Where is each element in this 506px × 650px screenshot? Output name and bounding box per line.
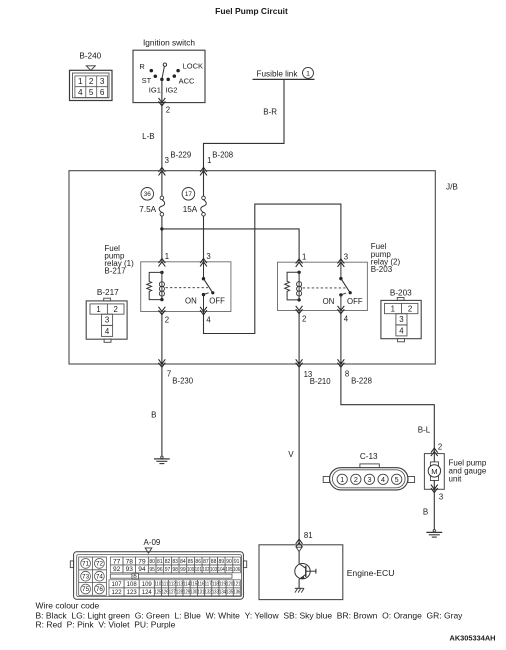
relay K2 pin 2 crossing <box>296 306 303 314</box>
connector A-09 left tab <box>70 561 73 568</box>
svg-text:112: 112 <box>169 582 176 588</box>
svg-text:2: 2 <box>302 315 306 324</box>
svg-text:89: 89 <box>218 559 224 565</box>
svg-text:M: M <box>431 467 437 476</box>
fusible link bus bar <box>253 78 315 80</box>
motor M1 terminals <box>430 462 438 466</box>
svg-text:83: 83 <box>172 559 178 565</box>
svg-text:3: 3 <box>367 475 371 484</box>
svg-text:4: 4 <box>381 475 385 484</box>
relay K2 coil bottom junction <box>297 298 300 301</box>
chassis ground in ECU <box>295 587 304 589</box>
connector C-13 left tab <box>323 477 329 483</box>
connector B-217 top tab <box>104 298 111 301</box>
svg-text:7.5A: 7.5A <box>139 205 156 214</box>
svg-text:86: 86 <box>195 559 201 565</box>
svg-text:1: 1 <box>340 475 344 484</box>
fusible link 1 circled number <box>303 67 314 78</box>
connector A-09 body <box>74 552 244 600</box>
svg-text:111: 111 <box>162 582 169 588</box>
wire L-B ignition to J/B <box>161 103 163 171</box>
relay K2 pin 3 crossing <box>338 259 345 267</box>
svg-text:73: 73 <box>82 573 90 580</box>
connector B-203 pin numbers <box>391 304 413 335</box>
svg-text:L-B: L-B <box>142 132 154 141</box>
svg-text:84: 84 <box>180 559 186 565</box>
wire relay2 pin4 to B-228 <box>340 311 342 365</box>
svg-text:2: 2 <box>408 304 412 313</box>
transistor emitter arrowhead <box>299 576 304 580</box>
svg-text:3: 3 <box>439 492 443 501</box>
svg-text:3: 3 <box>100 77 105 86</box>
wire ignition IG2 to pin 2 <box>161 79 163 102</box>
wire B fuel pump to ground <box>433 489 435 530</box>
connector B-217 pin numbers <box>96 305 118 336</box>
svg-text:85: 85 <box>188 559 194 565</box>
relay K1 box <box>141 262 231 312</box>
wire relay1 pin4 to relay2 pin3 <box>204 204 341 333</box>
fuse 36 symbol <box>160 196 164 200</box>
relay K2 parallel resistor <box>285 272 299 300</box>
connector C-13 right tab <box>408 477 415 483</box>
wire relay2 pin2 to B-210 <box>298 311 300 365</box>
fuel pump and gauge unit box <box>424 454 444 490</box>
connector C-13 top tab <box>360 464 379 468</box>
connector C-13 body <box>330 468 408 490</box>
svg-text:87: 87 <box>203 559 209 565</box>
svg-text:132: 132 <box>205 590 212 596</box>
svg-text:4: 4 <box>344 315 349 324</box>
svg-text:J/B: J/B <box>446 182 458 191</box>
svg-text:LOCK: LOCK <box>183 61 203 70</box>
svg-text:2: 2 <box>89 77 94 86</box>
svg-text:ST: ST <box>142 76 152 85</box>
svg-text:OFF: OFF <box>209 296 225 305</box>
svg-text:1: 1 <box>391 304 395 313</box>
svg-text:126: 126 <box>162 590 169 596</box>
svg-text:74: 74 <box>96 573 104 580</box>
relay K1 coil bottom junction <box>160 298 163 301</box>
relay K1 switch arm to OFF <box>204 279 213 293</box>
svg-text:1: 1 <box>78 77 83 86</box>
svg-text:127: 127 <box>169 590 176 596</box>
svg-text:B: B <box>423 508 428 517</box>
svg-text:134: 134 <box>219 590 226 596</box>
svg-text:5: 5 <box>89 88 94 97</box>
engine ECU box <box>259 545 343 600</box>
connector B-240 pin numbers 1-6 <box>78 77 105 97</box>
svg-text:94: 94 <box>138 566 146 573</box>
svg-text:1: 1 <box>165 252 169 261</box>
wire B-R fusible link to J/B <box>204 79 285 170</box>
svg-text:4: 4 <box>78 88 83 97</box>
svg-text:5: 5 <box>395 475 399 484</box>
relay K2 box <box>278 262 368 310</box>
svg-text:71: 71 <box>82 561 90 568</box>
svg-text:124: 124 <box>142 590 153 596</box>
wire emitter to chassis ground <box>298 579 300 588</box>
svg-text:130: 130 <box>190 590 197 596</box>
svg-text:1: 1 <box>207 156 211 165</box>
relay K1 coil <box>161 272 163 299</box>
svg-text:76: 76 <box>96 586 104 593</box>
svg-text:3: 3 <box>206 252 210 261</box>
connector A-09 pins 122-136 row <box>109 588 124 596</box>
fuel pump relay (2) name label <box>371 242 401 274</box>
svg-text:1: 1 <box>96 305 100 314</box>
svg-text:119: 119 <box>219 582 226 588</box>
svg-text:B-210: B-210 <box>310 377 331 386</box>
wire motor to pin3 <box>433 480 435 489</box>
connector C-13 pins 1-5 <box>337 474 402 484</box>
transistor Q1 <box>295 564 316 580</box>
svg-text:V: V <box>288 450 294 459</box>
engine ECU pin triangle <box>296 547 302 551</box>
relay K1 pin 2 crossing <box>159 307 166 315</box>
svg-text:99: 99 <box>180 567 186 573</box>
svg-text:78: 78 <box>126 558 134 565</box>
wire V relay2 to engine ECU <box>298 364 300 545</box>
node B-228 pin 8 crossing <box>338 359 345 367</box>
svg-text:91: 91 <box>234 559 240 565</box>
svg-text:100: 100 <box>187 567 194 573</box>
connector A-09 pins 77-91 row <box>110 557 123 565</box>
svg-text:C-13: C-13 <box>360 452 378 461</box>
relay K1 coil top junction <box>160 271 163 274</box>
connector A-09 right tab <box>243 561 246 568</box>
svg-text:125: 125 <box>154 590 161 596</box>
svg-text:ON: ON <box>185 296 197 305</box>
svg-text:3: 3 <box>399 315 403 324</box>
svg-text:81: 81 <box>157 559 163 565</box>
fuel pump unit name label <box>449 458 487 483</box>
wire B-L relay2 pin4 branch to fuel pump <box>341 364 434 454</box>
svg-text:77: 77 <box>113 558 121 565</box>
connector A-09 pins 107-121 row <box>109 580 124 588</box>
svg-text:105: 105 <box>225 567 232 573</box>
svg-text:36: 36 <box>144 191 152 198</box>
svg-text:81: 81 <box>304 531 313 540</box>
svg-text:B-230: B-230 <box>172 376 193 385</box>
svg-text:IG1: IG1 <box>149 85 161 94</box>
ignition switch arm <box>162 66 165 79</box>
svg-text:4: 4 <box>105 327 110 336</box>
wire fuse36 output branch to relay2 pin1 <box>162 229 299 262</box>
wire fuse36 input <box>161 171 163 196</box>
connector B-240 body <box>70 70 113 100</box>
svg-text:72: 72 <box>96 561 104 568</box>
relay K2 coil <box>298 272 300 300</box>
svg-text:113: 113 <box>176 582 183 588</box>
connector B-240 pin grid <box>75 76 108 98</box>
svg-text:2: 2 <box>354 475 358 484</box>
svg-text:103: 103 <box>210 567 217 573</box>
svg-text:136: 136 <box>233 590 240 596</box>
svg-text:123: 123 <box>127 590 138 596</box>
svg-text:Engine-ECU: Engine-ECU <box>347 568 395 578</box>
relay K2 switch output contact <box>339 293 342 296</box>
connector B-203 body <box>381 300 421 338</box>
connector A-09 pins 71-76 <box>81 559 105 594</box>
svg-text:2: 2 <box>165 315 169 324</box>
svg-text:Ignition switch: Ignition switch <box>143 38 195 48</box>
svg-text:B-217: B-217 <box>104 267 126 276</box>
fuse 17 circled number <box>182 188 195 201</box>
svg-text:3: 3 <box>165 156 169 165</box>
svg-text:106: 106 <box>233 567 240 573</box>
ground G2 <box>433 530 435 532</box>
svg-text:B-R: B-R <box>263 108 277 117</box>
svg-text:1: 1 <box>306 71 310 78</box>
svg-text:AK305334AH: AK305334AH <box>449 633 495 642</box>
connector B-240 index triangle <box>86 66 95 71</box>
relay K1 pin 3 crossing <box>200 259 207 267</box>
connector A-09 pins 92-106 row <box>110 565 123 573</box>
relay K2 switch arm to OFF <box>341 279 350 293</box>
svg-text:109: 109 <box>142 582 153 588</box>
svg-text:101: 101 <box>195 567 202 573</box>
svg-text:B-208: B-208 <box>212 150 233 159</box>
svg-text:IG2: IG2 <box>165 85 177 94</box>
motor M1 <box>428 465 440 477</box>
relay K2 switch common contact <box>340 262 342 278</box>
svg-text:115: 115 <box>190 582 197 588</box>
svg-text:117: 117 <box>205 582 212 588</box>
connector B-217 cells <box>90 304 124 314</box>
node B-229 pin 3 crossing <box>159 167 166 175</box>
wire fuse36 output to relay1 pin1 <box>161 216 163 262</box>
connector B-203 top tab <box>397 298 404 301</box>
svg-text:95: 95 <box>149 567 155 573</box>
relay K1 actuation dashed link <box>166 287 209 289</box>
fuel pump pin 3 crossing <box>431 485 438 493</box>
svg-text:92: 92 <box>113 566 121 573</box>
ignition switch position labels <box>139 61 203 94</box>
svg-text:B-229: B-229 <box>170 151 191 160</box>
svg-text:120: 120 <box>226 582 233 588</box>
wire B to ground <box>161 364 163 456</box>
svg-text:129: 129 <box>183 590 190 596</box>
connector B-203 bottom tab <box>398 339 405 342</box>
svg-text:B-217: B-217 <box>97 288 119 297</box>
svg-text:4: 4 <box>399 326 404 335</box>
svg-text:2: 2 <box>438 443 442 452</box>
svg-text:15A: 15A <box>183 205 198 214</box>
svg-text:B-203: B-203 <box>371 265 393 274</box>
relay K2 pin 1 crossing <box>296 259 303 267</box>
relay K2 pin 4 crossing <box>338 306 345 314</box>
relay K2 coil top junction <box>297 271 300 274</box>
svg-text:98: 98 <box>172 567 178 573</box>
relay K1 parallel resistor <box>147 272 162 299</box>
svg-text:93: 93 <box>126 566 134 573</box>
connector B-203 cells <box>385 303 418 313</box>
relay K2 actuation dashed link <box>303 287 346 289</box>
relay K1 switch output contact <box>202 293 205 296</box>
ignition switch box <box>133 50 205 102</box>
relay K1 pin 4 crossing <box>200 307 207 315</box>
svg-text:B-228: B-228 <box>351 376 372 385</box>
connector B-217 body <box>86 301 127 339</box>
svg-text:96: 96 <box>157 567 163 573</box>
svg-text:A-09: A-09 <box>143 538 160 547</box>
svg-text:116: 116 <box>197 582 204 588</box>
svg-text:ACC: ACC <box>179 77 195 86</box>
svg-text:102: 102 <box>202 567 209 573</box>
svg-text:97: 97 <box>165 567 171 573</box>
wire relay1 pin2 to B-230 <box>161 312 163 365</box>
node B-208 pin 1 crossing <box>200 167 207 175</box>
svg-text:4: 4 <box>206 315 211 324</box>
svg-text:104: 104 <box>218 567 225 573</box>
ignition switch rotor circle <box>163 63 166 66</box>
svg-text:88: 88 <box>211 559 217 565</box>
svg-text:80: 80 <box>149 559 155 565</box>
engine ECU pin 81 crossing <box>296 539 303 547</box>
svg-text:B: B <box>151 411 156 420</box>
ground G1 <box>161 456 163 458</box>
svg-text:131: 131 <box>197 590 204 596</box>
fuel pump relay (1) name label <box>104 244 134 276</box>
svg-text:1: 1 <box>302 252 306 261</box>
wire fuse17 input <box>203 171 205 196</box>
svg-text:17: 17 <box>185 191 193 198</box>
relay K1 switch common contact <box>203 262 205 279</box>
svg-text:107: 107 <box>112 582 123 588</box>
connector A-09 left pin block 71-76 <box>79 557 107 595</box>
svg-text:ON: ON <box>323 297 335 306</box>
svg-text:79: 79 <box>138 558 146 565</box>
junction block J/B box <box>69 171 435 364</box>
relay K1 pin 1 crossing <box>159 259 166 267</box>
node B-210 pin 13 crossing <box>296 359 303 367</box>
svg-text:unit: unit <box>449 474 463 483</box>
fuel pump pin 2 crossing <box>431 448 438 456</box>
svg-text:B: B <box>133 574 137 580</box>
wire pin 81 to transistor collector <box>298 551 300 563</box>
connector A-09 index triangle <box>145 548 152 553</box>
junction dot fuse36 output <box>160 227 163 230</box>
svg-text:90: 90 <box>226 559 232 565</box>
svg-text:122: 122 <box>112 590 123 596</box>
svg-text:108: 108 <box>127 582 138 588</box>
svg-text:3: 3 <box>344 252 348 261</box>
svg-text:2: 2 <box>166 105 170 114</box>
connector B-217 bottom tab <box>104 339 111 342</box>
svg-text:128: 128 <box>176 590 183 596</box>
svg-text:R: R <box>139 62 145 71</box>
svg-text:7: 7 <box>167 369 171 378</box>
svg-text:110: 110 <box>154 582 161 588</box>
svg-text:8: 8 <box>345 369 349 378</box>
svg-text:Wire colour code: Wire colour code <box>36 601 100 611</box>
svg-text:6: 6 <box>100 88 105 97</box>
wire pin2 to motor <box>433 454 435 463</box>
fuse 36 circled number <box>141 188 154 201</box>
svg-text:2: 2 <box>114 305 118 314</box>
svg-text:B-203: B-203 <box>390 288 412 297</box>
svg-text:135: 135 <box>226 590 233 596</box>
svg-text:3: 3 <box>105 316 109 325</box>
node B-230 pin 7 crossing <box>159 359 166 367</box>
svg-text:OFF: OFF <box>347 297 363 306</box>
svg-text:B-L: B-L <box>418 426 431 435</box>
svg-text:R: Red P: Pink V: Violet PU: R: Red P: Pink V: Violet PU: Purple <box>36 619 176 629</box>
svg-text:75: 75 <box>82 586 90 593</box>
wire fuse17 output to relay1 pin3 <box>203 216 205 262</box>
svg-text:114: 114 <box>183 582 190 588</box>
svg-text:B-240: B-240 <box>79 52 101 61</box>
svg-text:118: 118 <box>212 582 219 588</box>
connector A-09 centre latch bar <box>110 574 132 578</box>
ignition switch pin 2 crossing <box>159 98 166 106</box>
fuse 17 symbol <box>202 196 206 200</box>
svg-text:121: 121 <box>233 582 240 588</box>
svg-text:Fuel Pump Circuit: Fuel Pump Circuit <box>215 6 288 16</box>
svg-text:Fusible link: Fusible link <box>257 69 299 78</box>
svg-text:82: 82 <box>165 559 171 565</box>
svg-text:133: 133 <box>212 590 219 596</box>
ignition switch contact dots <box>150 69 180 81</box>
